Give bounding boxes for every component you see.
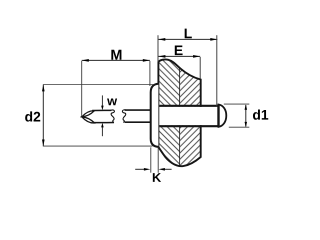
label K (153, 173, 161, 182)
rivet body tube (159, 106, 218, 126)
mandrel tip piece (82, 110, 115, 123)
label w (107, 99, 117, 106)
label d1 (253, 110, 268, 120)
dimension M (82, 59, 150, 116)
label M (111, 50, 121, 60)
workpiece block outline (158, 59, 200, 166)
mandrel head cap (219, 105, 227, 127)
dimension d2 (42, 85, 154, 147)
label L (185, 29, 192, 39)
dimension L (158, 35, 217, 106)
dimension E (158, 55, 200, 79)
dimension w (101, 95, 104, 136)
rivet flange head (151, 84, 159, 147)
workpiece block hatching right sheet (180, 58, 201, 168)
label d2 (25, 111, 40, 121)
label E (175, 46, 183, 56)
mandrel rod (122, 110, 150, 122)
dimension K (135, 147, 171, 172)
sheet interface line (179, 60, 181, 167)
workpiece block hatching left sheet (158, 58, 179, 168)
dimension d1 (224, 104, 250, 127)
